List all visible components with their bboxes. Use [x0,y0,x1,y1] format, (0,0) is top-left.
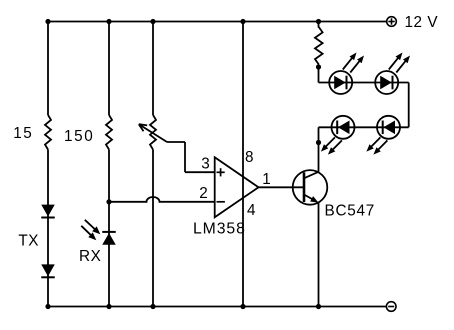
svg-text:12 V: 12 V [405,14,439,31]
svg-text:3: 3 [201,155,210,172]
svg-text:8: 8 [245,149,254,166]
svg-text:150: 150 [64,128,94,145]
svg-text:15: 15 [13,125,33,142]
svg-text:2: 2 [199,185,208,202]
svg-text:1: 1 [262,171,271,188]
svg-text:4: 4 [247,202,256,219]
svg-text:LM358: LM358 [193,220,246,237]
svg-text:TX: TX [18,233,39,250]
svg-text:BC547: BC547 [325,203,376,220]
svg-text:RX: RX [79,248,101,265]
